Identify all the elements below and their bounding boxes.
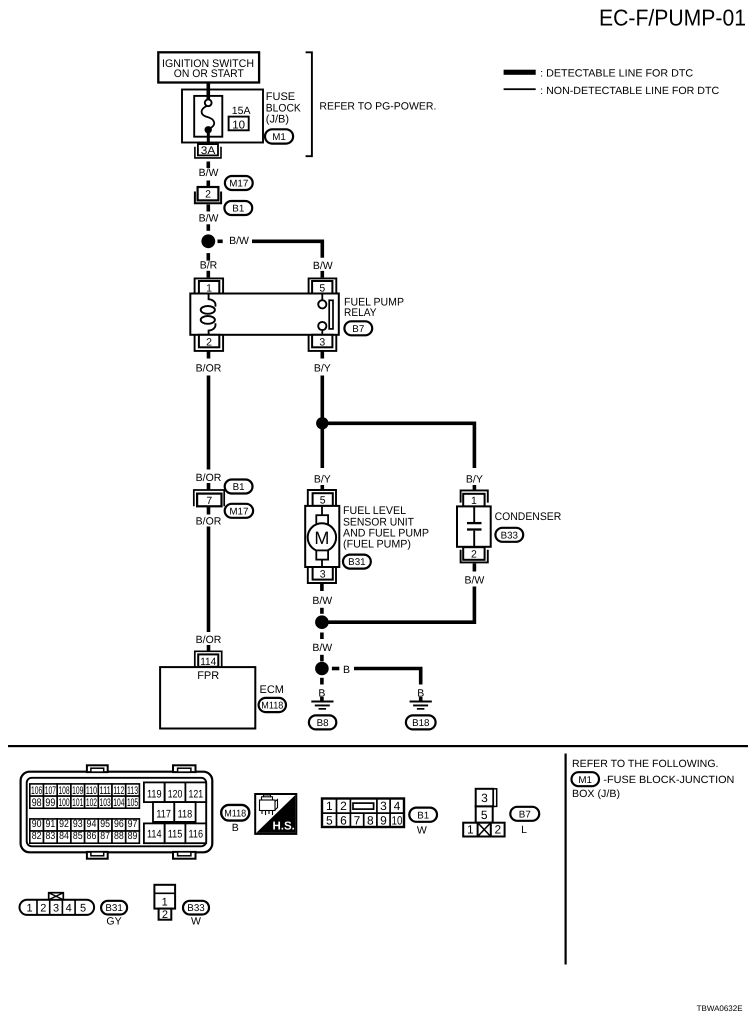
ECM connector tab bottom left bbox=[87, 852, 108, 859]
ignition switch box bbox=[158, 52, 259, 82]
ECM box bbox=[160, 667, 255, 728]
wire dash below connector 2 bbox=[207, 205, 211, 212]
svg-text:2: 2 bbox=[40, 903, 46, 915]
svg-text:B/W: B/W bbox=[229, 235, 249, 247]
svg-text:B/W: B/W bbox=[312, 595, 332, 607]
connector ref B1 oval bbox=[409, 808, 437, 822]
condenser pin 2 bracket bbox=[461, 550, 488, 563]
svg-text:10: 10 bbox=[232, 119, 245, 131]
svg-text:121: 121 bbox=[188, 788, 203, 800]
wire stub below pump pin 3 bbox=[320, 584, 324, 592]
svg-text:ECM: ECM bbox=[260, 684, 284, 696]
svg-text:89: 89 bbox=[128, 830, 138, 842]
svg-text:98: 98 bbox=[32, 797, 42, 809]
bracket refer to PG-POWER bbox=[306, 52, 312, 156]
footer M1 oval bbox=[572, 772, 600, 786]
svg-text:B/OR: B/OR bbox=[196, 634, 222, 646]
pump pin 5 box bbox=[313, 493, 333, 506]
svg-text:B/Y: B/Y bbox=[314, 363, 331, 375]
wire stub to condenser pin 1 bbox=[473, 485, 477, 490]
svg-text:4: 4 bbox=[66, 903, 72, 915]
svg-text:L: L bbox=[521, 824, 527, 836]
svg-text:W: W bbox=[191, 915, 201, 927]
svg-text:B1: B1 bbox=[232, 204, 244, 215]
wire dash bbox=[207, 181, 211, 188]
svg-text:1: 1 bbox=[162, 896, 168, 908]
wire dash above pin 5 bbox=[320, 271, 324, 278]
fuse block (J/B) box bbox=[182, 90, 263, 143]
relay pin 5 box bbox=[312, 281, 332, 294]
connector ref B18 oval bbox=[406, 715, 436, 729]
svg-text:86: 86 bbox=[87, 830, 97, 842]
connector ref B33 oval bbox=[495, 528, 523, 542]
wire fuse to 3A bbox=[207, 133, 210, 146]
connector ref M17 oval bbox=[225, 176, 253, 190]
svg-text:15A: 15A bbox=[232, 105, 251, 117]
wire dash bbox=[320, 633, 324, 640]
svg-text:B/W: B/W bbox=[199, 212, 219, 224]
connector B31 cell dividers bbox=[37, 900, 75, 915]
connector 2 bracket bbox=[195, 192, 221, 204]
connector ref B1 oval bbox=[224, 201, 252, 215]
svg-text:CONDENSER: CONDENSER bbox=[495, 511, 562, 523]
svg-text:B/Y: B/Y bbox=[314, 474, 331, 486]
svg-text:3: 3 bbox=[380, 799, 387, 813]
svg-text:87: 87 bbox=[100, 830, 110, 842]
svg-text:1: 1 bbox=[26, 903, 32, 915]
wire B/Y down to junction bbox=[320, 376, 324, 419]
svg-text:107: 107 bbox=[45, 785, 56, 797]
pump pin 3 bracket bbox=[308, 567, 336, 583]
svg-text:2: 2 bbox=[471, 549, 477, 561]
wire dash bbox=[320, 608, 324, 614]
connector ref B8 oval bbox=[309, 715, 336, 729]
fuel pump relay box bbox=[190, 294, 338, 335]
svg-text:3: 3 bbox=[319, 336, 325, 348]
svg-text:2: 2 bbox=[205, 189, 211, 201]
svg-text:8: 8 bbox=[367, 813, 374, 827]
svg-text:5: 5 bbox=[481, 808, 488, 822]
svg-text:115: 115 bbox=[168, 829, 183, 841]
svg-text:96: 96 bbox=[114, 818, 124, 830]
fuse 15A symbol bbox=[205, 99, 212, 106]
svg-text:B/OR: B/OR bbox=[196, 363, 222, 375]
wire ignition switch to fuse bbox=[207, 83, 211, 100]
wire B/Y below dot bbox=[320, 429, 324, 468]
svg-text:B33: B33 bbox=[187, 903, 205, 914]
condenser pin 1 box bbox=[463, 494, 484, 507]
svg-text:RELAY: RELAY bbox=[344, 307, 377, 319]
svg-text:104: 104 bbox=[113, 797, 124, 809]
wire condenser pin2 stub bbox=[473, 564, 477, 572]
wire dash above pin 1 bbox=[207, 271, 211, 278]
ground symbol B8 bbox=[320, 697, 324, 701]
svg-text:83: 83 bbox=[45, 830, 55, 842]
ground symbol B18 bbox=[419, 697, 423, 701]
ECM pin grid upper-left rows 106-113 / 98-105 bbox=[30, 784, 140, 808]
connector B1 blank slot bbox=[353, 803, 374, 809]
svg-text:2: 2 bbox=[206, 336, 212, 348]
connector ref B7 oval bbox=[344, 321, 372, 335]
svg-text:5: 5 bbox=[80, 903, 86, 915]
connector B31 outline bbox=[20, 900, 95, 915]
svg-text:6: 6 bbox=[340, 813, 347, 827]
svg-text:2: 2 bbox=[494, 823, 501, 837]
wire stub to pump pin 5 bbox=[320, 485, 324, 490]
relay pin 3 box bbox=[312, 335, 332, 348]
svg-text:B/W: B/W bbox=[464, 575, 484, 587]
connector ref M1 oval bbox=[265, 129, 293, 143]
motor wire top bbox=[321, 506, 323, 515]
svg-text:91: 91 bbox=[45, 818, 55, 830]
wire dash right of dot bbox=[218, 240, 223, 244]
svg-text:94: 94 bbox=[87, 818, 97, 830]
svg-text:90: 90 bbox=[32, 818, 42, 830]
svg-text:TBWA0632E: TBWA0632E bbox=[697, 1004, 743, 1013]
svg-text:M118: M118 bbox=[261, 701, 284, 712]
relay pin 5 bracket bbox=[309, 278, 337, 293]
wire B/Y branch to condenser bbox=[322, 423, 474, 468]
svg-text:BOX (J/B): BOX (J/B) bbox=[572, 788, 620, 800]
wire stub above connector 7 bbox=[207, 483, 211, 491]
wire B to right ground bbox=[354, 669, 421, 685]
wire relay pin3 down bbox=[320, 351, 324, 359]
svg-text:120: 120 bbox=[168, 788, 183, 800]
footer vertical divider bbox=[565, 754, 567, 965]
svg-text:109: 109 bbox=[72, 785, 83, 797]
svg-text:B7: B7 bbox=[519, 810, 531, 821]
ECM connector inner outline bbox=[27, 778, 207, 847]
wire B/OR to ECM bbox=[207, 527, 211, 633]
relay pin 1 box bbox=[199, 281, 219, 294]
svg-text:93: 93 bbox=[73, 818, 83, 830]
svg-text:B/W: B/W bbox=[313, 260, 333, 272]
svg-text:4: 4 bbox=[394, 799, 401, 813]
svg-text:M: M bbox=[314, 528, 329, 548]
svg-text:REFER TO THE FOLLOWING.: REFER TO THE FOLLOWING. bbox=[572, 758, 719, 770]
svg-text:M17: M17 bbox=[229, 506, 248, 517]
svg-text:105: 105 bbox=[127, 797, 138, 809]
connector B7 bottom row bbox=[463, 823, 504, 837]
connector 3A box bbox=[198, 144, 218, 155]
connector ref B7 oval bbox=[510, 807, 539, 821]
svg-text:116: 116 bbox=[188, 829, 203, 841]
svg-text:10: 10 bbox=[392, 813, 403, 827]
fuse number 10 box bbox=[229, 117, 249, 131]
ECM connector tab top right bbox=[173, 765, 196, 772]
relay pin 2 box bbox=[199, 335, 219, 348]
svg-text:97: 97 bbox=[128, 818, 138, 830]
svg-text:B/R: B/R bbox=[200, 259, 218, 271]
svg-text:REFER TO PG-POWER.: REFER TO PG-POWER. bbox=[319, 100, 436, 112]
svg-text:7: 7 bbox=[206, 495, 212, 507]
fuse inner box bbox=[194, 96, 222, 137]
svg-text:110: 110 bbox=[86, 785, 97, 797]
connector B7 pin numbers bbox=[467, 791, 501, 837]
wire dash right of dot B bbox=[332, 667, 339, 671]
svg-text:B: B bbox=[343, 664, 350, 676]
svg-text:2: 2 bbox=[162, 909, 168, 921]
svg-text:102: 102 bbox=[86, 797, 97, 809]
junction dot B/W ground bbox=[315, 615, 329, 629]
connector B33 pin numbers bbox=[162, 896, 168, 921]
svg-text:82: 82 bbox=[32, 830, 42, 842]
svg-text:B/W: B/W bbox=[199, 167, 219, 179]
svg-text:B31: B31 bbox=[105, 903, 122, 914]
svg-text:3: 3 bbox=[481, 791, 488, 805]
svg-text:GY: GY bbox=[106, 915, 121, 927]
svg-text:: DETECTABLE LINE FOR DTC: : DETECTABLE LINE FOR DTC bbox=[540, 68, 693, 80]
svg-text:88: 88 bbox=[114, 830, 124, 842]
wire dash below bbox=[320, 678, 324, 685]
svg-text:B/OR: B/OR bbox=[196, 515, 222, 527]
svg-text:119: 119 bbox=[147, 788, 162, 800]
wire stub below connector 7 bbox=[207, 507, 211, 515]
wire dash below dot bbox=[207, 253, 211, 261]
relay pin 2 bracket bbox=[195, 335, 224, 351]
svg-text:111: 111 bbox=[100, 785, 111, 797]
connector ref B33 oval bbox=[183, 901, 209, 915]
connector ref B1 oval bbox=[225, 480, 253, 494]
wire stub to pin 114 bbox=[207, 645, 211, 652]
condenser pin 2 box bbox=[463, 547, 484, 560]
ECM connector tab top left bbox=[87, 765, 108, 772]
svg-text:B: B bbox=[232, 822, 239, 834]
pump pin 3 box bbox=[313, 567, 333, 580]
motor M circle bbox=[308, 523, 336, 551]
svg-text:5: 5 bbox=[326, 813, 333, 827]
connector 7 bracket bbox=[194, 490, 224, 506]
wire B/OR long bbox=[207, 376, 211, 470]
ECM pin grid lower-left rows 90-97 / 82-89 bbox=[30, 819, 140, 843]
junction dot B/W bbox=[201, 234, 215, 248]
svg-text:FPR: FPR bbox=[197, 670, 219, 682]
svg-text:H.S.: H.S. bbox=[273, 821, 295, 833]
fuel level sensor unit body bbox=[305, 506, 339, 567]
svg-text:B/Y: B/Y bbox=[466, 474, 483, 486]
svg-text:M1: M1 bbox=[272, 132, 286, 143]
junction dot B bbox=[315, 662, 329, 676]
svg-text:ON OR START: ON OR START bbox=[174, 68, 244, 80]
connector B31 X box bbox=[49, 893, 64, 900]
svg-text:7: 7 bbox=[354, 813, 361, 827]
wire dash bbox=[320, 655, 324, 662]
svg-text:M1: M1 bbox=[578, 775, 592, 786]
connector B1 cells bbox=[322, 812, 404, 814]
svg-text:3: 3 bbox=[320, 568, 326, 580]
relay pin 1 bracket bbox=[195, 278, 224, 293]
svg-text:(J/B): (J/B) bbox=[266, 113, 289, 125]
ECM connector M118 outline bbox=[21, 772, 213, 853]
connector ref B31 oval bbox=[101, 901, 127, 915]
connector 7 box bbox=[197, 494, 221, 507]
connector 3A bracket bbox=[195, 147, 221, 158]
svg-text:B1: B1 bbox=[417, 810, 429, 821]
svg-text:114: 114 bbox=[147, 829, 162, 841]
svg-text:M118: M118 bbox=[224, 808, 247, 819]
connector ref M17 oval bbox=[225, 504, 253, 518]
svg-text:99: 99 bbox=[45, 797, 55, 809]
connector ref M118 oval bbox=[259, 698, 286, 712]
svg-text:92: 92 bbox=[59, 818, 69, 830]
svg-text:B33: B33 bbox=[501, 530, 519, 541]
svg-text:B1: B1 bbox=[233, 482, 245, 493]
ECM connector tab bottom right bbox=[173, 852, 196, 859]
svg-text:1: 1 bbox=[467, 823, 474, 837]
relay contact bbox=[321, 294, 323, 301]
svg-text:M17: M17 bbox=[229, 179, 248, 190]
wire B/W to relay pin 5 bbox=[252, 241, 322, 257]
svg-text:108: 108 bbox=[58, 785, 69, 797]
svg-text:B7: B7 bbox=[352, 324, 364, 335]
svg-text:: NON-DETECTABLE LINE FOR DTC: : NON-DETECTABLE LINE FOR DTC bbox=[540, 85, 719, 97]
svg-text:114: 114 bbox=[200, 656, 216, 668]
svg-text:1: 1 bbox=[326, 799, 333, 813]
svg-text:B/OR: B/OR bbox=[196, 472, 222, 484]
ECM pin grid right rows 119-121 / 117-118 / 114-116 bbox=[144, 782, 206, 843]
svg-text:FUSE: FUSE bbox=[266, 91, 295, 103]
svg-text:118: 118 bbox=[178, 809, 193, 821]
wire dash 3A down bbox=[207, 162, 211, 169]
pump pin 5 bracket bbox=[308, 490, 336, 506]
svg-text:B31: B31 bbox=[348, 557, 365, 568]
svg-text:100: 100 bbox=[58, 797, 69, 809]
connector 2 box bbox=[198, 187, 219, 200]
relay pin 3 bracket bbox=[309, 335, 337, 351]
svg-text:3: 3 bbox=[53, 903, 59, 915]
svg-text:2: 2 bbox=[340, 799, 347, 813]
connector B33 lower box bbox=[159, 909, 172, 920]
svg-text:9: 9 bbox=[380, 813, 387, 827]
svg-text:(FUEL PUMP): (FUEL PUMP) bbox=[343, 538, 411, 550]
wire condenser down to junction bbox=[322, 587, 475, 623]
H.S. mark bbox=[255, 794, 296, 834]
legend detectable line swatch bbox=[504, 70, 536, 75]
relay coil bbox=[209, 294, 216, 307]
svg-text:B18: B18 bbox=[412, 718, 430, 729]
connector B7 pin 5 box bbox=[476, 806, 493, 822]
connector 114 box bbox=[198, 654, 218, 666]
svg-text:103: 103 bbox=[100, 797, 111, 809]
svg-text:EC-F/PUMP-01: EC-F/PUMP-01 bbox=[599, 5, 746, 31]
svg-text:95: 95 bbox=[100, 818, 110, 830]
connector B1 pin numbers bbox=[326, 799, 403, 827]
svg-text:B8: B8 bbox=[317, 718, 330, 729]
svg-text:85: 85 bbox=[73, 830, 83, 842]
connector B7 pin 3 box bbox=[476, 789, 494, 807]
svg-text:W: W bbox=[417, 824, 427, 836]
connector ref B31 oval bbox=[343, 555, 371, 569]
svg-text:101: 101 bbox=[72, 797, 83, 809]
condenser pin 1 bracket bbox=[461, 490, 488, 502]
junction dot B/Y bbox=[316, 417, 328, 429]
capacitor symbol bbox=[473, 506, 475, 522]
connector B1 outline bbox=[322, 799, 404, 828]
svg-text:113: 113 bbox=[127, 785, 138, 797]
wire dash bbox=[207, 224, 211, 231]
svg-text:84: 84 bbox=[59, 830, 69, 842]
svg-text:3A: 3A bbox=[201, 145, 216, 157]
motor wire bottom bbox=[321, 560, 323, 567]
connector B33 upper box bbox=[154, 885, 175, 909]
connector B31 pin numbers bbox=[26, 903, 86, 915]
connector 114 bracket bbox=[195, 651, 222, 667]
condenser body bbox=[457, 506, 491, 546]
separator line bbox=[8, 745, 748, 747]
wire relay pin2 down bbox=[207, 351, 211, 359]
svg-text:117: 117 bbox=[156, 809, 171, 821]
svg-text:-FUSE BLOCK-JUNCTION: -FUSE BLOCK-JUNCTION bbox=[603, 774, 734, 786]
svg-text:B/W: B/W bbox=[312, 642, 332, 654]
connector ref M118 oval bbox=[221, 805, 249, 821]
legend non-detectable line swatch bbox=[504, 88, 536, 90]
svg-text:106: 106 bbox=[31, 785, 42, 797]
svg-text:112: 112 bbox=[113, 785, 124, 797]
